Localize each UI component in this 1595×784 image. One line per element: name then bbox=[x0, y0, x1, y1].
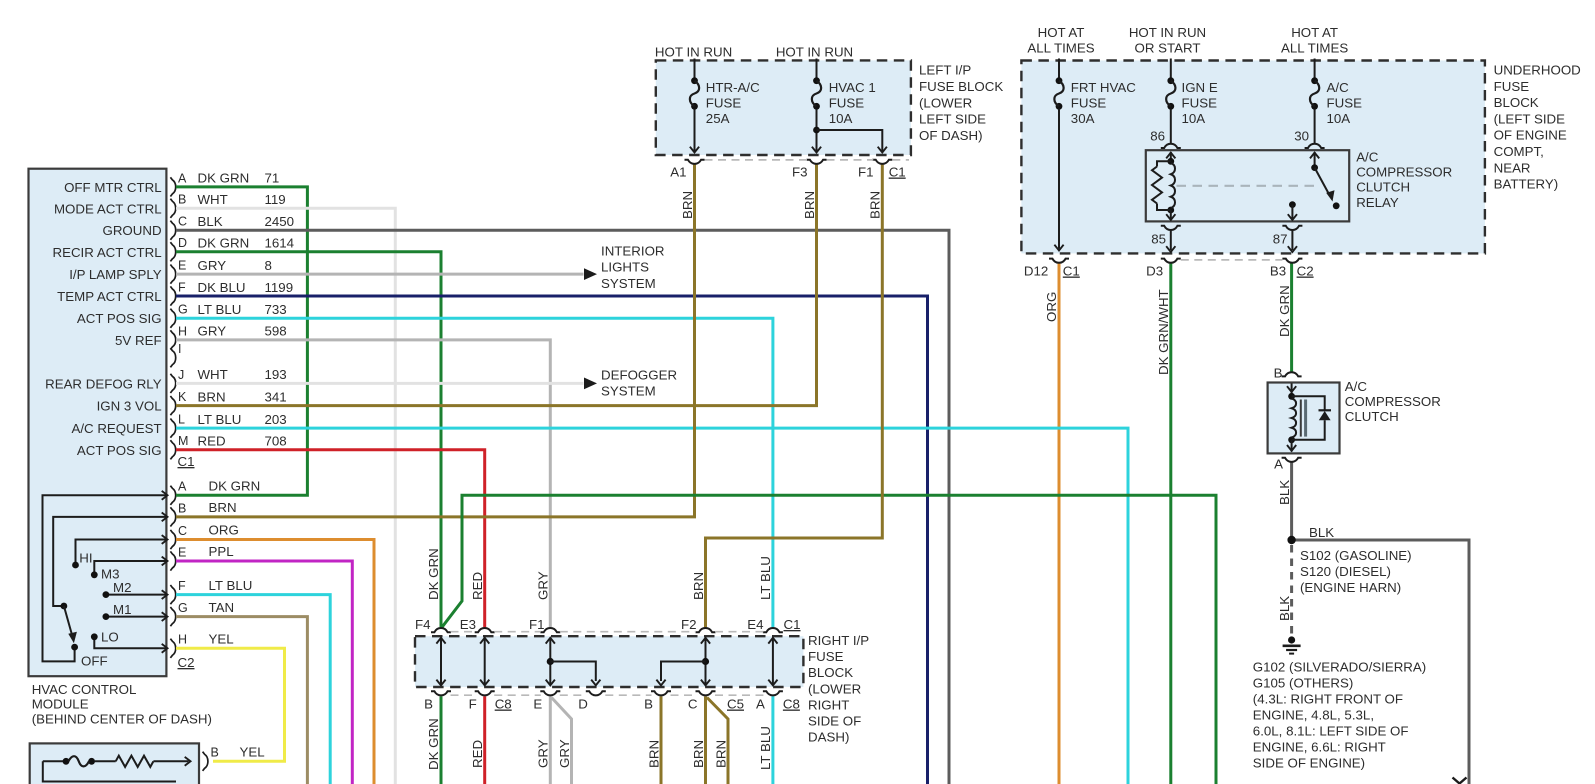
right I/P fuse block bottom pins B, F (C8), E, D, B, C (C5), A (C8) bbox=[424, 691, 800, 711]
svg-text:LT BLU: LT BLU bbox=[209, 578, 253, 593]
blower switch in HVAC control module bbox=[43, 491, 168, 669]
fuse HVAC 1 FUSE 10A bbox=[812, 59, 887, 153]
svg-text:(LOWER: (LOWER bbox=[808, 681, 861, 696]
svg-text:D: D bbox=[178, 236, 187, 250]
svg-text:BRN: BRN bbox=[713, 740, 728, 768]
svg-text:OFF: OFF bbox=[81, 654, 108, 669]
A/C compressor clutch bbox=[1268, 366, 1441, 472]
svg-text:G: G bbox=[178, 303, 188, 317]
svg-text:LO: LO bbox=[101, 630, 119, 645]
underhood fuse block connectors D12 C1, D3, B3 C2 bbox=[1024, 259, 1314, 279]
svg-text:GRY: GRY bbox=[557, 739, 572, 768]
svg-text:LT BLU: LT BLU bbox=[758, 556, 773, 600]
svg-text:RED: RED bbox=[470, 572, 485, 600]
HOT AT ALL TIMES / HOT IN RUN OR START feed labels bbox=[1027, 25, 1348, 56]
left I/P fuse block caption bbox=[919, 63, 1003, 144]
svg-text:FUSE BLOCK: FUSE BLOCK bbox=[919, 79, 1003, 94]
wire BLK 2450 (C1-C GROUND) bbox=[176, 230, 949, 784]
svg-text:A1: A1 bbox=[670, 165, 686, 180]
svg-text:HVAC CONTROL: HVAC CONTROL bbox=[32, 682, 137, 697]
svg-text:L: L bbox=[178, 413, 185, 427]
svg-text:RED: RED bbox=[198, 434, 226, 449]
svg-text:ORG: ORG bbox=[1044, 292, 1059, 322]
svg-text:K: K bbox=[178, 390, 187, 404]
svg-text:HOT AT: HOT AT bbox=[1038, 25, 1085, 40]
defogger system reference bbox=[584, 368, 677, 399]
svg-text:(LEFT SIDE: (LEFT SIDE bbox=[1494, 111, 1566, 126]
wire DK GRN 71 (C1-A OFF MTR CTRL to C2-A) bbox=[176, 187, 307, 495]
svg-text:E3: E3 bbox=[460, 617, 476, 632]
svg-text:B: B bbox=[424, 697, 433, 712]
svg-text:B: B bbox=[1274, 366, 1283, 381]
svg-text:733: 733 bbox=[265, 302, 287, 317]
wire GRY 8 (C1-E I/P LAMP SPLY to interior lights system) bbox=[176, 273, 584, 276]
svg-text:FUSE: FUSE bbox=[1327, 96, 1363, 111]
svg-text:H: H bbox=[178, 633, 187, 647]
svg-text:86: 86 bbox=[1150, 129, 1165, 144]
svg-text:BATTERY): BATTERY) bbox=[1494, 177, 1559, 192]
fuse IGN E FUSE 10A bbox=[1166, 59, 1218, 144]
svg-text:B: B bbox=[178, 501, 186, 515]
svg-text:F3: F3 bbox=[792, 165, 808, 180]
svg-text:BLK: BLK bbox=[1277, 480, 1292, 505]
svg-text:COMPT,: COMPT, bbox=[1494, 144, 1544, 159]
svg-text:LEFT SIDE: LEFT SIDE bbox=[919, 112, 986, 127]
svg-text:FUSE: FUSE bbox=[808, 649, 844, 664]
svg-text:DK GRN: DK GRN bbox=[426, 548, 441, 600]
svg-text:FUSE: FUSE bbox=[829, 96, 865, 111]
svg-text:E4: E4 bbox=[747, 617, 763, 632]
svg-text:RED: RED bbox=[470, 740, 485, 768]
svg-text:708: 708 bbox=[265, 434, 287, 449]
wire BRN 341 (C1-K IGN 3 VOL to F3) bbox=[176, 164, 817, 405]
ground caption G102 / G105 bbox=[1253, 659, 1426, 770]
blower motor resistors box bbox=[30, 743, 199, 784]
wire RED 708 (C1-M ACT POS SIG to E3) bbox=[176, 450, 485, 628]
svg-text:A/C REQUEST: A/C REQUEST bbox=[71, 421, 161, 436]
svg-text:ENGINE, 4.8L, 5.3L,: ENGINE, 4.8L, 5.3L, bbox=[1253, 707, 1374, 722]
interior lights system reference bbox=[584, 244, 665, 291]
wire BRN (F1 C1 to F2) bbox=[706, 164, 883, 627]
C1 wire color and circuit number labels bbox=[198, 171, 295, 449]
svg-text:HTR-A/C: HTR-A/C bbox=[706, 80, 760, 95]
svg-text:341: 341 bbox=[265, 389, 287, 404]
wire YEL (C2-H to blower resistors B) bbox=[176, 648, 285, 761]
svg-text:RIGHT I/P: RIGHT I/P bbox=[808, 633, 869, 648]
wire DK GRN 1614 (C1-D RECIR ACT CTRL to F4) bbox=[176, 252, 441, 628]
wire BRN (C2-B to A1) bbox=[176, 164, 695, 517]
svg-text:ALL TIMES: ALL TIMES bbox=[1027, 41, 1094, 56]
svg-text:UNDERHOOD: UNDERHOOD bbox=[1494, 63, 1581, 78]
wire GRY 598 (C1-H 5V REF to F1) bbox=[176, 340, 550, 628]
svg-text:J: J bbox=[178, 368, 184, 382]
svg-text:ACT POS SIG: ACT POS SIG bbox=[77, 311, 162, 326]
svg-text:85: 85 bbox=[1151, 232, 1166, 247]
svg-text:SYSTEM: SYSTEM bbox=[601, 384, 656, 399]
svg-text:S120 (DIESEL): S120 (DIESEL) bbox=[1300, 564, 1391, 579]
svg-text:119: 119 bbox=[265, 192, 286, 207]
svg-text:BRN: BRN bbox=[691, 740, 706, 768]
connector C2 of HVAC control module (pins A-H) bbox=[170, 480, 194, 670]
svg-text:C8: C8 bbox=[495, 697, 512, 712]
svg-text:DK GRN: DK GRN bbox=[198, 236, 250, 251]
fuse A/C FUSE 10A bbox=[1310, 59, 1362, 144]
svg-text:ORG: ORG bbox=[209, 523, 239, 538]
svg-text:LT BLU: LT BLU bbox=[198, 302, 242, 317]
svg-text:SIDE OF ENGINE): SIDE OF ENGINE) bbox=[1253, 756, 1365, 771]
wire GRY (right block E branch) bbox=[552, 698, 572, 784]
svg-text:A: A bbox=[1274, 457, 1283, 472]
svg-text:GROUND: GROUND bbox=[102, 223, 161, 238]
svg-text:DASH): DASH) bbox=[808, 729, 849, 744]
svg-text:G: G bbox=[178, 601, 188, 615]
svg-text:RELAY: RELAY bbox=[1356, 195, 1399, 210]
HVAC control module box bbox=[29, 169, 167, 677]
svg-text:LT BLU: LT BLU bbox=[758, 726, 773, 770]
wire BRN (right block C C5) bbox=[704, 696, 707, 784]
svg-text:CLUTCH: CLUTCH bbox=[1345, 409, 1399, 424]
svg-text:D3: D3 bbox=[1146, 264, 1163, 279]
svg-text:FUSE: FUSE bbox=[1071, 96, 1107, 111]
svg-text:HI: HI bbox=[79, 551, 92, 566]
svg-text:F2: F2 bbox=[681, 617, 697, 632]
svg-text:HVAC 1: HVAC 1 bbox=[829, 80, 876, 95]
right I/P fuse block internal bus arrows bbox=[436, 638, 777, 686]
svg-text:OF ENGINE: OF ENGINE bbox=[1494, 128, 1567, 143]
svg-text:BRN: BRN bbox=[691, 572, 706, 600]
svg-text:C: C bbox=[178, 215, 187, 229]
svg-text:C1: C1 bbox=[178, 454, 195, 469]
svg-text:FUSE: FUSE bbox=[1182, 96, 1218, 111]
svg-text:BRN: BRN bbox=[802, 191, 817, 219]
svg-text:HOT AT: HOT AT bbox=[1291, 25, 1338, 40]
svg-text:F1: F1 bbox=[858, 165, 874, 180]
C2 wire color labels bbox=[209, 479, 265, 760]
splice S102/S120 bbox=[1287, 525, 1411, 595]
svg-text:F: F bbox=[178, 579, 186, 593]
wire LT BLU (right block A C8) bbox=[771, 696, 774, 784]
wire LT BLU (C2-F) bbox=[176, 595, 330, 784]
svg-text:G105 (OTHERS): G105 (OTHERS) bbox=[1253, 675, 1354, 690]
svg-text:10A: 10A bbox=[1327, 111, 1351, 126]
svg-text:A/C: A/C bbox=[1345, 379, 1368, 394]
right I/P fuse block caption bbox=[808, 633, 869, 744]
svg-text:A: A bbox=[178, 171, 187, 185]
svg-text:DK BLU: DK BLU bbox=[198, 280, 246, 295]
svg-text:S102 (GASOLINE): S102 (GASOLINE) bbox=[1300, 548, 1412, 563]
svg-text:C: C bbox=[688, 697, 698, 712]
svg-text:F1: F1 bbox=[529, 617, 545, 632]
svg-text:A: A bbox=[178, 480, 187, 494]
svg-text:YEL: YEL bbox=[240, 745, 265, 760]
svg-text:HOT IN RUN: HOT IN RUN bbox=[1129, 25, 1206, 40]
svg-text:HOT IN RUN: HOT IN RUN bbox=[776, 45, 853, 60]
svg-text:INTERIOR: INTERIOR bbox=[601, 244, 665, 259]
wire ORG (D12) bbox=[1058, 263, 1061, 784]
svg-text:1614: 1614 bbox=[265, 236, 295, 251]
svg-text:E: E bbox=[178, 259, 186, 273]
svg-text:FUSE: FUSE bbox=[1494, 79, 1530, 94]
svg-text:(ENGINE HARN): (ENGINE HARN) bbox=[1300, 580, 1401, 595]
svg-text:GRY: GRY bbox=[536, 571, 551, 600]
svg-text:F: F bbox=[469, 697, 477, 712]
svg-text:GRY: GRY bbox=[198, 258, 227, 273]
svg-text:A/C: A/C bbox=[1356, 150, 1379, 165]
svg-text:A/C: A/C bbox=[1327, 80, 1350, 95]
HOT IN RUN feed labels bbox=[655, 45, 853, 60]
svg-text:RIGHT: RIGHT bbox=[808, 697, 849, 712]
vertical wire labels bbox=[426, 191, 1292, 770]
svg-text:WHT: WHT bbox=[198, 192, 228, 207]
svg-text:BRN: BRN bbox=[680, 191, 695, 219]
svg-text:GRY: GRY bbox=[536, 739, 551, 768]
left I/P fuse block connector pins A1, F3, F1 (C1) bbox=[670, 160, 909, 180]
thermal limiter and resistor element, pin B bbox=[43, 746, 219, 782]
wire PPL (C2-E) bbox=[176, 561, 352, 784]
svg-text:M: M bbox=[178, 434, 188, 448]
underhood fuse block (dashed box) bbox=[1021, 61, 1485, 254]
svg-text:BLK: BLK bbox=[1277, 596, 1292, 621]
underhood fuse block caption bbox=[1494, 63, 1581, 192]
svg-text:NEAR: NEAR bbox=[1494, 160, 1531, 175]
wire LT BLU 203 (C1-L A/C REQUEST) bbox=[176, 428, 1128, 784]
HVAC control module caption bbox=[32, 682, 212, 727]
svg-text:A: A bbox=[756, 697, 765, 712]
svg-text:87: 87 bbox=[1273, 232, 1288, 247]
left I/P fuse block (dashed box) bbox=[656, 60, 911, 155]
svg-text:BRN: BRN bbox=[198, 389, 226, 404]
svg-text:C1: C1 bbox=[889, 165, 906, 180]
svg-text:GRY: GRY bbox=[198, 324, 227, 339]
svg-text:YEL: YEL bbox=[209, 632, 234, 647]
svg-text:1199: 1199 bbox=[265, 280, 294, 295]
svg-text:SIDE OF: SIDE OF bbox=[808, 713, 861, 728]
svg-text:DEFOGGER: DEFOGGER bbox=[601, 368, 677, 383]
wire WHT 119 (C1-B MODE ACT CTRL) bbox=[176, 208, 395, 784]
svg-text:10A: 10A bbox=[829, 111, 853, 126]
svg-text:5V REF: 5V REF bbox=[115, 333, 162, 348]
svg-text:B3: B3 bbox=[1270, 264, 1286, 279]
wire DK GRN (F4 jumper to engine harness) bbox=[442, 495, 1217, 784]
wire BLK (clutch A to splice) bbox=[1290, 463, 1293, 541]
svg-text:BRN: BRN bbox=[209, 500, 237, 515]
fuse FRT HVAC FUSE 30A bbox=[1054, 59, 1136, 251]
connector C1 of HVAC control module (pins A-M) bbox=[170, 171, 194, 469]
HVAC control module signal names bbox=[45, 180, 162, 458]
wire DK GRN (B3 to clutch B) bbox=[1290, 263, 1293, 371]
svg-text:8: 8 bbox=[265, 258, 272, 273]
svg-text:D: D bbox=[578, 697, 588, 712]
svg-text:71: 71 bbox=[265, 171, 280, 186]
svg-text:LEFT I/P: LEFT I/P bbox=[919, 63, 971, 78]
svg-text:C1: C1 bbox=[1063, 264, 1080, 279]
A/C compressor clutch relay K1 bbox=[1146, 129, 1452, 253]
svg-text:(BEHIND CENTER OF DASH): (BEHIND CENTER OF DASH) bbox=[32, 712, 212, 727]
svg-text:B: B bbox=[178, 193, 186, 207]
svg-text:25A: 25A bbox=[706, 111, 730, 126]
svg-text:E: E bbox=[178, 545, 186, 559]
svg-text:BLK: BLK bbox=[1309, 525, 1334, 540]
svg-text:30: 30 bbox=[1294, 129, 1309, 144]
svg-text:E: E bbox=[533, 697, 542, 712]
svg-text:ALL TIMES: ALL TIMES bbox=[1281, 41, 1348, 56]
svg-text:DK GRN: DK GRN bbox=[426, 718, 441, 770]
right I/P fuse block (dashed box) bbox=[415, 636, 803, 687]
svg-text:IGN E: IGN E bbox=[1182, 80, 1218, 95]
svg-text:BRN: BRN bbox=[646, 740, 661, 768]
svg-text:BLOCK: BLOCK bbox=[1494, 95, 1539, 110]
svg-text:B: B bbox=[644, 697, 653, 712]
svg-text:LIGHTS: LIGHTS bbox=[601, 260, 649, 275]
svg-text:OF DASH): OF DASH) bbox=[919, 128, 983, 143]
svg-text:FRT HVAC: FRT HVAC bbox=[1071, 80, 1136, 95]
svg-text:REAR DEFOG RLY: REAR DEFOG RLY bbox=[45, 376, 162, 391]
svg-text:M1: M1 bbox=[113, 602, 131, 617]
svg-text:RECIR ACT CTRL: RECIR ACT CTRL bbox=[52, 245, 161, 260]
svg-text:OR START: OR START bbox=[1135, 41, 1201, 56]
svg-text:LT BLU: LT BLU bbox=[198, 412, 242, 427]
wire GRY (right block E) bbox=[549, 696, 552, 784]
svg-text:2450: 2450 bbox=[265, 214, 295, 229]
svg-text:D12: D12 bbox=[1024, 264, 1048, 279]
svg-text:C8: C8 bbox=[783, 697, 800, 712]
wire BRN (right block B) bbox=[660, 696, 663, 784]
svg-text:C1: C1 bbox=[784, 617, 801, 632]
svg-text:COMPRESSOR: COMPRESSOR bbox=[1356, 165, 1452, 180]
svg-text:203: 203 bbox=[265, 412, 287, 427]
right I/P fuse block top pins F4, E3, F1, F2, E4 (C1) bbox=[415, 617, 801, 632]
svg-text:I/P LAMP SPLY: I/P LAMP SPLY bbox=[69, 267, 162, 282]
svg-text:ENGINE, 6.6L: RIGHT: ENGINE, 6.6L: RIGHT bbox=[1253, 740, 1386, 755]
svg-text:TAN: TAN bbox=[209, 600, 235, 615]
svg-text:I: I bbox=[178, 342, 181, 356]
svg-text:30A: 30A bbox=[1071, 111, 1095, 126]
svg-text:DK GRN/WHT: DK GRN/WHT bbox=[1156, 289, 1171, 375]
svg-text:598: 598 bbox=[265, 324, 287, 339]
svg-text:DK GRN: DK GRN bbox=[198, 171, 250, 186]
svg-text:H: H bbox=[178, 324, 187, 338]
svg-text:(LOWER: (LOWER bbox=[919, 95, 972, 110]
wire ORG (C2-C) bbox=[176, 540, 374, 784]
svg-text:FUSE: FUSE bbox=[706, 96, 742, 111]
svg-text:C2: C2 bbox=[1297, 264, 1314, 279]
wire DK GRN (right block B) bbox=[440, 696, 443, 784]
svg-text:C2: C2 bbox=[178, 655, 195, 670]
wire WHT 193 (C1-J REAR DEFOG RLY to defogger system) bbox=[176, 382, 584, 385]
svg-text:PPL: PPL bbox=[209, 544, 234, 559]
svg-text:F4: F4 bbox=[415, 617, 431, 632]
svg-text:COMPRESSOR: COMPRESSOR bbox=[1345, 394, 1441, 409]
fuse HTR-A/C FUSE 25A bbox=[690, 59, 760, 153]
svg-text:ACT POS SIG: ACT POS SIG bbox=[77, 443, 162, 458]
svg-text:BLOCK: BLOCK bbox=[808, 665, 853, 680]
svg-text:CLUTCH: CLUTCH bbox=[1356, 180, 1410, 195]
wire BLK (splice to engine harness) bbox=[1292, 540, 1469, 784]
svg-text:BRN: BRN bbox=[868, 191, 883, 219]
svg-text:SYSTEM: SYSTEM bbox=[601, 276, 656, 291]
svg-text:6.0L, 8.1L: LEFT SIDE OF: 6.0L, 8.1L: LEFT SIDE OF bbox=[1253, 724, 1409, 739]
svg-text:F: F bbox=[178, 280, 186, 294]
svg-text:C5: C5 bbox=[727, 697, 744, 712]
svg-text:B: B bbox=[211, 746, 219, 760]
wire LT BLU 733 (C1-G ACT POS SIG to E4) bbox=[176, 318, 773, 627]
svg-text:DK GRN: DK GRN bbox=[209, 479, 261, 494]
wire BRN (right block C5 branch) bbox=[707, 698, 728, 784]
svg-text:IGN 3 VOL: IGN 3 VOL bbox=[97, 399, 162, 414]
svg-text:G102 (SILVERADO/SIERRA): G102 (SILVERADO/SIERRA) bbox=[1253, 659, 1426, 674]
ground G102/G105 bbox=[1283, 545, 1301, 654]
wire DK GRN/WHT (D3) bbox=[1169, 263, 1172, 784]
svg-text:BLK: BLK bbox=[198, 214, 223, 229]
wire RED (right block F C8) bbox=[483, 696, 486, 784]
svg-text:193: 193 bbox=[265, 367, 287, 382]
svg-text:MODE ACT CTRL: MODE ACT CTRL bbox=[54, 201, 162, 216]
svg-text:WHT: WHT bbox=[198, 367, 228, 382]
wire DK BLU 1199 (C1-F TEMP ACT CTRL) bbox=[176, 296, 928, 784]
svg-text:OFF MTR CTRL: OFF MTR CTRL bbox=[64, 180, 162, 195]
wire TAN (C2-G) bbox=[176, 617, 307, 784]
svg-text:MODULE: MODULE bbox=[32, 697, 89, 712]
svg-text:M2: M2 bbox=[113, 580, 131, 595]
svg-text:C: C bbox=[178, 524, 187, 538]
svg-text:10A: 10A bbox=[1182, 111, 1206, 126]
svg-text:(4.3L: RIGHT FRONT OF: (4.3L: RIGHT FRONT OF bbox=[1253, 691, 1403, 706]
svg-text:TEMP ACT CTRL: TEMP ACT CTRL bbox=[57, 289, 161, 304]
svg-text:HOT IN RUN: HOT IN RUN bbox=[655, 45, 732, 60]
svg-text:DK GRN: DK GRN bbox=[1277, 285, 1292, 337]
